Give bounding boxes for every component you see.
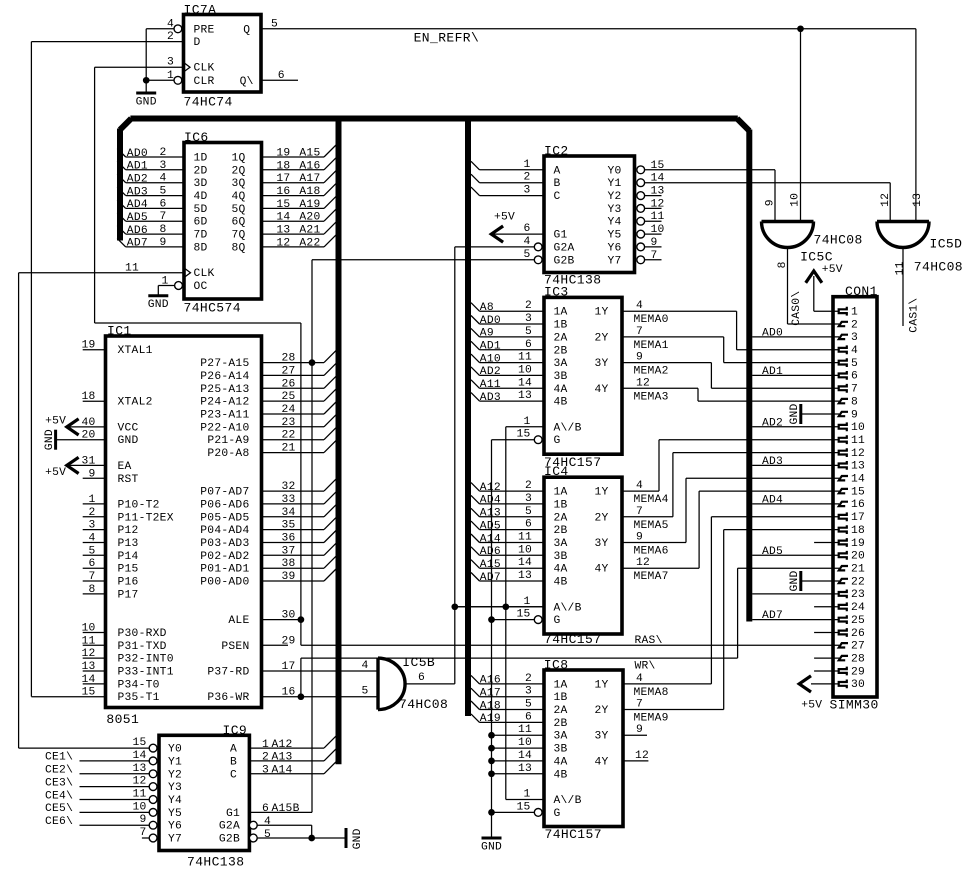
junction PRE/CLR/GND	[143, 77, 150, 84]
svg-text:CON1: CON1	[845, 284, 878, 299]
svg-text:13: 13	[912, 193, 924, 207]
IC1 pin 25 P24-A12 wire to bus	[262, 400, 325, 402]
svg-text:2D: 2D	[194, 165, 208, 177]
IC6 pin 1D wire from bus, net AD0	[117, 149, 126, 158]
IC9 output Y2 bubble	[149, 770, 157, 778]
CON1 pin 28 stub	[814, 657, 839, 659]
svg-text:15: 15	[276, 199, 290, 211]
svg-text:7Q: 7Q	[231, 230, 245, 242]
IC8 pin 6 input 2B net A19	[471, 714, 480, 723]
svg-text:Y7: Y7	[608, 255, 622, 267]
svg-text:PRE: PRE	[194, 24, 215, 36]
IC3 pin 2 input 1A net A8	[471, 303, 480, 312]
svg-text:AD2: AD2	[762, 417, 783, 429]
svg-text:2B: 2B	[554, 718, 568, 730]
svg-text:A13: A13	[480, 508, 501, 520]
svg-text:3: 3	[525, 313, 532, 325]
bus vertical mid-left	[336, 121, 342, 764]
svg-text:AD0: AD0	[127, 148, 148, 160]
svg-text:3: 3	[159, 160, 166, 172]
CON1 pin 15 glyph	[839, 489, 848, 493]
ground GND at CON1 pin 22	[802, 580, 839, 582]
svg-text:A13: A13	[272, 752, 293, 764]
svg-text:1: 1	[262, 739, 269, 751]
svg-text:16: 16	[851, 499, 865, 511]
wire net A15B vertical	[311, 260, 313, 813]
svg-text:PSEN: PSEN	[221, 641, 249, 653]
svg-text:G1: G1	[554, 230, 568, 242]
svg-text:14: 14	[518, 557, 532, 569]
IC6 pin 6Q wire to bus, net A20	[262, 220, 325, 222]
IC4 output 3Y wire net MEMA6	[622, 542, 686, 544]
wire IC9 G2B to ground	[257, 837, 346, 839]
svg-text:2B: 2B	[554, 345, 568, 357]
svg-text:C: C	[230, 769, 237, 781]
svg-text:74HC08: 74HC08	[399, 697, 448, 712]
CON1 pin 28 glyph	[839, 656, 848, 660]
IC1 pin 8 P17 stub	[83, 593, 106, 595]
IC1 pin 38 P01-AD1 wire to bus	[262, 567, 325, 569]
IC3 output 1Y wire net MEMA0	[622, 310, 737, 312]
svg-text:Y1: Y1	[608, 178, 622, 190]
svg-text:30: 30	[851, 679, 865, 691]
svg-text:AD3: AD3	[480, 392, 501, 404]
svg-text:4: 4	[636, 480, 643, 492]
IC3 pin 14 input 4A net A11	[471, 380, 480, 389]
svg-text:3B: 3B	[554, 744, 568, 756]
svg-text:CE2\: CE2\	[45, 765, 73, 777]
IC4 output 2Y wire net MEMA5	[622, 516, 673, 518]
svg-text:AD7: AD7	[480, 572, 501, 584]
svg-text:14: 14	[132, 750, 146, 762]
svg-text:16: 16	[276, 186, 290, 198]
svg-text:G2B: G2B	[219, 834, 240, 846]
svg-text:P14: P14	[118, 551, 139, 563]
IC3 pin 3 input 1B net AD0	[471, 316, 480, 325]
IC9 output Y7 stub	[142, 837, 149, 839]
svg-text:AD5: AD5	[480, 520, 501, 532]
svg-text:2: 2	[88, 507, 95, 519]
wire IC3 G to gnd chain	[492, 439, 535, 441]
svg-text:18: 18	[851, 525, 865, 537]
svg-text:WR\: WR\	[635, 661, 656, 673]
svg-text:IC5B: IC5B	[402, 655, 435, 670]
svg-text:40: 40	[81, 417, 95, 429]
svg-text:7: 7	[636, 699, 643, 711]
svg-text:5: 5	[264, 829, 271, 841]
IC3 output 2Y wire net MEMA1	[622, 336, 724, 338]
CON1 pin 2 glyph	[839, 322, 848, 326]
IC4 pin 2 input 1A net A12	[471, 483, 480, 492]
IC1 pin 12 P32-INT0	[83, 657, 106, 659]
svg-text:ALE: ALE	[228, 615, 249, 627]
wire IC2 Y1 to IC5D pin 12	[645, 182, 891, 184]
svg-text:20: 20	[81, 430, 95, 442]
IC7A pin CLR bubble	[174, 76, 182, 84]
svg-text:1B: 1B	[554, 692, 568, 704]
svg-text:1: 1	[523, 789, 530, 801]
IC6 pin 7D wire from bus, net AD6	[117, 226, 126, 235]
svg-text:4D: 4D	[194, 191, 208, 203]
svg-text:A12: A12	[480, 482, 501, 494]
IC9 output Y3 bubble	[149, 783, 157, 791]
IC9 input A wire to bus net A12	[249, 747, 324, 749]
svg-text:25: 25	[282, 391, 296, 403]
junction gnd chain at IC4 G	[488, 616, 495, 623]
svg-text:15: 15	[516, 609, 530, 621]
IC4 pin 15 G bubble	[534, 616, 542, 624]
svg-text:23: 23	[282, 417, 296, 429]
svg-text:6: 6	[525, 711, 532, 723]
svg-text:9: 9	[764, 199, 776, 206]
svg-text:AD6: AD6	[127, 225, 148, 237]
svg-text:P35-T1: P35-T1	[118, 692, 160, 704]
IC2 pin 2 input B from bus	[471, 174, 480, 183]
svg-text:A14: A14	[480, 533, 501, 545]
svg-text:8: 8	[159, 224, 166, 236]
svg-text:A20: A20	[299, 212, 320, 224]
ground GND at CON1 pin 9	[802, 413, 839, 415]
svg-text:+5V: +5V	[45, 467, 66, 479]
IC2 output Y6 stub	[645, 246, 662, 248]
wire IC9 G2A to ground	[257, 824, 312, 826]
svg-text:10: 10	[518, 364, 532, 376]
wire IC6 CLK from IC9 Y0	[19, 272, 184, 274]
svg-text:1Y: 1Y	[595, 487, 609, 499]
wire IC7A CLR to GND riser	[146, 79, 174, 81]
IC9 output Y1 bubble	[149, 757, 157, 765]
svg-text:MEMA3: MEMA3	[634, 391, 669, 403]
wire net ALE horizontal at y323	[95, 322, 301, 324]
svg-text:3D: 3D	[194, 178, 208, 190]
svg-text:P01-AD1: P01-AD1	[200, 564, 249, 576]
svg-text:P37-RD: P37-RD	[207, 667, 249, 679]
svg-text:74HC138: 74HC138	[187, 855, 244, 870]
svg-text:10: 10	[518, 737, 532, 749]
svg-text:P17: P17	[118, 589, 139, 601]
IC1 pin 11 P31-TXD	[83, 644, 106, 646]
svg-text:G: G	[554, 615, 561, 627]
svg-text:P31-TXD: P31-TXD	[118, 641, 167, 653]
svg-text:7: 7	[636, 506, 643, 518]
svg-text:CE3\: CE3\	[45, 777, 73, 789]
wire IC9 Y0 to IC6 CLK net	[19, 747, 150, 749]
IC3 output 3Y wire net MEMA2	[622, 362, 711, 364]
svg-text:CE1\: CE1\	[45, 752, 73, 764]
IC1 pin 2 P11-T2EX stub	[83, 516, 106, 518]
svg-text:IC8: IC8	[544, 657, 569, 672]
wire net RAS horizontal	[301, 644, 839, 646]
svg-text:7: 7	[851, 384, 858, 396]
svg-text:3Y: 3Y	[595, 731, 609, 743]
IC6 pin 2D wire from bus, net AD1	[117, 161, 126, 170]
svg-text:2: 2	[525, 673, 532, 685]
svg-text:13: 13	[851, 461, 865, 473]
svg-text:AD0: AD0	[480, 315, 501, 327]
wire net EN_REFR from Q	[261, 28, 916, 30]
CON1 pin 23 glyph	[839, 590, 847, 599]
IC3 pin 13 input 4B net AD3	[471, 393, 480, 402]
svg-text:P12: P12	[118, 525, 139, 537]
svg-text:AD3: AD3	[762, 456, 783, 468]
svg-text:9: 9	[851, 409, 858, 421]
svg-text:11: 11	[81, 635, 95, 647]
svg-text:8051: 8051	[106, 712, 139, 727]
svg-text:A9: A9	[480, 328, 494, 340]
svg-text:1Q: 1Q	[231, 153, 245, 165]
svg-text:XTAL2: XTAL2	[118, 397, 153, 409]
svg-text:7: 7	[636, 326, 643, 338]
svg-text:IC2: IC2	[544, 144, 569, 159]
svg-text:22: 22	[851, 576, 865, 588]
CON1 pin 16 glyph	[839, 502, 848, 506]
IC2 output Y2 stub	[645, 195, 662, 197]
svg-text:AD4: AD4	[762, 494, 783, 506]
svg-text:9: 9	[636, 352, 643, 364]
supply +5V at CON1 pin 30	[811, 683, 839, 685]
svg-text:10: 10	[132, 801, 146, 813]
and-gate IC5B body	[378, 658, 405, 710]
svg-text:12: 12	[276, 237, 290, 249]
IC6 pin 6D wire from bus, net AD5	[117, 213, 126, 222]
CON1 pin 20 glyph	[839, 551, 847, 560]
CON1 pin 5 glyph	[839, 358, 847, 367]
IC6 CLK triangle	[184, 268, 191, 278]
svg-text:+5V: +5V	[45, 415, 66, 427]
IC9 pin G2B bubble	[249, 834, 257, 842]
svg-text:19: 19	[81, 340, 95, 352]
svg-text:24: 24	[851, 602, 865, 614]
IC8 output 1Y wire net MEMA8	[623, 683, 711, 685]
CON1 pin 21 glyph	[839, 566, 848, 570]
wire IC7A PRE to GND riser	[146, 28, 174, 30]
IC1 pin 7 P16 stub	[83, 580, 106, 582]
svg-text:A19: A19	[480, 713, 501, 725]
IC6 pin 4Q wire to bus, net A18	[262, 195, 325, 197]
svg-text:32: 32	[282, 481, 296, 493]
svg-text:A22: A22	[299, 237, 320, 249]
IC8 output 3Y stub	[623, 734, 647, 736]
svg-text:9: 9	[636, 532, 643, 544]
IC1 pin 30 ALE wire	[262, 619, 301, 621]
IC1 pin 34 P05-AD5 wire to bus	[262, 516, 325, 518]
svg-text:MEMA0: MEMA0	[634, 314, 669, 326]
svg-text:P36-WR: P36-WR	[207, 692, 249, 704]
svg-text:5: 5	[525, 326, 532, 338]
svg-text:3: 3	[88, 520, 95, 532]
CON1 pin 17 glyph	[839, 512, 847, 521]
IC6 pin 3Q wire to bus, net A17	[262, 182, 325, 184]
IC4 pin 11 input 3A net A14	[471, 534, 480, 543]
svg-text:P33-INT1: P33-INT1	[118, 667, 174, 679]
svg-text:13: 13	[518, 763, 532, 775]
CON1 pin 19 stub	[814, 542, 839, 544]
svg-text:VCC: VCC	[118, 422, 139, 434]
svg-text:G2A: G2A	[219, 821, 240, 833]
svg-text:G2B: G2B	[554, 255, 575, 267]
svg-text:AD2: AD2	[480, 366, 501, 378]
wire bus to CON1 pin 6 net AD1	[752, 374, 839, 376]
svg-text:4: 4	[88, 533, 95, 545]
IC6 pin 1Q wire to bus, net A15	[262, 156, 325, 158]
svg-text:P04-AD4: P04-AD4	[200, 525, 249, 537]
svg-text:IC9: IC9	[223, 723, 248, 738]
svg-text:Y4: Y4	[168, 795, 182, 807]
ground GND at IC6	[157, 286, 159, 296]
svg-text:P30-RXD: P30-RXD	[118, 628, 167, 640]
CON1 pin 26 stub	[814, 632, 839, 634]
svg-text:5D: 5D	[194, 204, 208, 216]
IC6 pin 5D wire from bus, net AD4	[117, 200, 126, 209]
IC6 pin OC bubble	[175, 282, 183, 290]
IC1 pin 22 P21-A9 wire to bus	[262, 439, 325, 441]
svg-text:1: 1	[88, 494, 95, 506]
IC1 pin 14 P34-T0	[83, 683, 106, 685]
svg-text:1B: 1B	[554, 320, 568, 332]
svg-text:12: 12	[851, 448, 865, 460]
wire IC6 OC to ground	[158, 285, 174, 287]
svg-text:1: 1	[523, 416, 530, 428]
IC9 pin G1 net A15B	[249, 811, 312, 813]
svg-text:38: 38	[282, 558, 296, 570]
svg-text:2Y: 2Y	[595, 705, 609, 717]
svg-text:AD5: AD5	[762, 546, 783, 558]
svg-text:P34-T0: P34-T0	[118, 679, 160, 691]
svg-text:17: 17	[851, 512, 865, 524]
wire IC5B output to select net	[405, 683, 455, 685]
bus vertical left AD	[117, 129, 123, 241]
IC2 pin G2B bubble	[534, 256, 542, 264]
svg-text:A16: A16	[480, 675, 501, 687]
svg-text:21: 21	[851, 564, 865, 576]
svg-text:IC1: IC1	[107, 324, 132, 339]
svg-text:26: 26	[282, 378, 296, 390]
svg-text:7D: 7D	[194, 230, 208, 242]
IC2 output Y3 bubble	[637, 205, 645, 213]
multiplexer IC8 box	[544, 670, 623, 827]
supply +5V at CON1 pin 1	[813, 276, 815, 311]
svg-text:8D: 8D	[194, 242, 208, 254]
wire bus to CON1 pin 3 net AD0	[752, 336, 839, 338]
IC1 pin 23 P22-A10 wire to bus	[262, 426, 325, 428]
IC3 pin 11 input 3A net A10	[471, 354, 480, 363]
wire IC4 G to gnd chain	[492, 619, 535, 621]
svg-text:CE4\: CE4\	[45, 790, 73, 802]
wire IC7A D input	[31, 41, 183, 43]
IC1 pin 29 PSEN stub	[262, 644, 289, 646]
svg-text:A8: A8	[480, 302, 494, 314]
svg-text:RAS\: RAS\	[635, 635, 663, 647]
svg-text:AD7: AD7	[127, 238, 148, 250]
svg-text:6: 6	[262, 803, 269, 815]
svg-text:IC4: IC4	[544, 464, 569, 479]
svg-text:B: B	[230, 756, 237, 768]
svg-text:Y6: Y6	[168, 821, 182, 833]
CON1 pin 19 glyph	[839, 538, 847, 547]
svg-text:2: 2	[525, 480, 532, 492]
svg-text:3A: 3A	[554, 358, 568, 370]
svg-text:P24-A12: P24-A12	[200, 397, 249, 409]
svg-text:6: 6	[159, 198, 166, 210]
CON1 pin 9 glyph	[839, 412, 848, 416]
svg-text:A15B: A15B	[272, 803, 300, 815]
svg-text:A12: A12	[272, 739, 293, 751]
svg-text:9: 9	[636, 724, 643, 736]
svg-text:5: 5	[361, 686, 368, 698]
svg-text:2Y: 2Y	[595, 332, 609, 344]
CON1 pin 10 glyph	[839, 422, 847, 431]
svg-text:2: 2	[262, 752, 269, 764]
IC8 pin 1 A/B select wire	[506, 799, 544, 801]
IC2 output Y1 bubble	[637, 179, 645, 187]
svg-text:4B: 4B	[554, 769, 568, 781]
svg-text:4B: 4B	[554, 397, 568, 409]
CON1 pin 13 glyph	[839, 461, 847, 470]
CON1 pin 25 glyph	[839, 615, 847, 624]
svg-text:18: 18	[276, 160, 290, 172]
svg-text:5Q: 5Q	[231, 204, 245, 216]
CON1 pin 3 glyph	[839, 335, 848, 339]
svg-text:5: 5	[851, 358, 858, 370]
svg-text:A17: A17	[299, 173, 320, 185]
IC4 pin 14 input 4A net A15	[471, 560, 480, 569]
svg-text:4: 4	[361, 660, 368, 672]
svg-text:IC7A: IC7A	[184, 3, 217, 18]
svg-text:Y2: Y2	[168, 769, 182, 781]
IC1 pin 32 P07-AD7 wire to bus	[262, 490, 325, 492]
wire IC5D output CAS1 stub	[902, 247, 904, 326]
svg-text:5: 5	[88, 545, 95, 557]
svg-text:CLK: CLK	[194, 63, 215, 75]
svg-text:36: 36	[282, 533, 296, 545]
svg-text:P20-A8: P20-A8	[207, 448, 249, 460]
svg-text:Y1: Y1	[168, 756, 182, 768]
IC2 output Y4 stub	[645, 220, 662, 222]
IC2 output Y6 bubble	[637, 243, 645, 251]
wire select net horizontal to muxes	[455, 606, 544, 608]
svg-text:MEMA1: MEMA1	[634, 340, 669, 352]
svg-text:GND: GND	[789, 403, 801, 424]
svg-text:1: 1	[523, 596, 530, 608]
IC9 input B wire to bus net A13	[249, 760, 324, 762]
svg-text:P32-INT0: P32-INT0	[118, 654, 174, 666]
IC9 output Y6 net CE6\	[80, 824, 150, 826]
svg-text:3: 3	[262, 765, 269, 777]
svg-text:31: 31	[81, 455, 95, 467]
junction select net from IC5B	[451, 603, 458, 610]
svg-text:GND: GND	[44, 429, 56, 450]
IC2 pin G2A bubble	[534, 243, 542, 251]
svg-text:6: 6	[523, 223, 530, 235]
wire IC2 G2B from A15B net	[312, 259, 534, 261]
IC6 pin 4D wire from bus, net AD3	[117, 187, 126, 196]
wire net IC9-Y0 vertical left edge	[18, 273, 20, 748]
svg-text:4Y: 4Y	[595, 384, 609, 396]
IC1 pin XTAL2 stub	[83, 400, 106, 402]
IC3 pin 1 A/B select	[506, 426, 544, 428]
wire IC8 G to gnd chain	[492, 811, 535, 813]
svg-text:P25-A13: P25-A13	[200, 384, 249, 396]
IC9 output Y4 bubble	[149, 796, 157, 804]
IC1 pin 35 P04-AD4 wire to bus	[262, 529, 325, 531]
IC9 output Y6 bubble	[149, 821, 157, 829]
svg-text:P26-A14: P26-A14	[200, 371, 249, 383]
svg-text:15: 15	[516, 801, 530, 813]
svg-text:3Q: 3Q	[231, 178, 245, 190]
svg-text:A15: A15	[480, 559, 501, 571]
svg-text:1B: 1B	[554, 499, 568, 511]
svg-text:Y3: Y3	[168, 782, 182, 794]
